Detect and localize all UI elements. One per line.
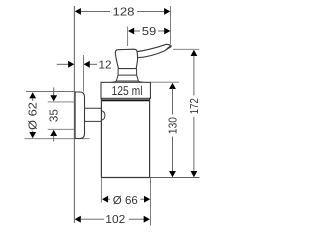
extension line below bottle left (x=101.2) bbox=[100, 178, 102, 203]
dim 59 line left bbox=[134, 30, 140, 32]
wall flange bbox=[75, 92, 84, 139]
wall line bbox=[73, 6, 75, 223]
collar lower ring bbox=[116, 75, 138, 81]
dim O62 line top bbox=[32, 98, 34, 101]
extension line 35 top (y=101.9) bbox=[48, 101, 74, 103]
dim 128 arrow left bbox=[75, 8, 81, 15]
svg-text:102: 102 bbox=[105, 214, 125, 226]
dim 59 arrow left bbox=[128, 28, 134, 35]
dim O62 arrow top bbox=[29, 92, 36, 98]
dim 172 line lower bbox=[193, 117, 195, 172]
dim 130 arrow bottom bbox=[169, 171, 176, 177]
dim O66 stub right bbox=[140, 198, 144, 200]
dim 128 line right bbox=[137, 10, 165, 12]
extension line bottom baseline right (y=177.5) bbox=[149, 177, 199, 179]
extension line 12 right (x=83.5) bbox=[83, 55, 85, 92]
extension line bottle top right (y=82.2) bbox=[151, 81, 179, 83]
svg-text:Ø 66: Ø 66 bbox=[113, 195, 138, 207]
dim 12 tail right bbox=[90, 63, 97, 65]
svg-text:130: 130 bbox=[168, 117, 180, 134]
collar upper ring bbox=[118, 69, 137, 76]
dim 102 line right bbox=[129, 218, 145, 220]
dim 130 line lower bbox=[172, 137, 174, 172]
dim 35 arrow top (pointing down) bbox=[50, 95, 57, 101]
dim O66 arrow left bbox=[102, 196, 108, 203]
dim O62 arrow bottom bbox=[29, 132, 36, 138]
svg-text:172: 172 bbox=[189, 98, 201, 114]
lever tip bevel line bbox=[165, 45, 171, 50]
dim 130 arrow top bbox=[169, 83, 176, 89]
extension line top right (x=170.5 from 128/59 dims) bbox=[170, 6, 172, 44]
dim 102 tail left bbox=[81, 218, 105, 220]
svg-text:Ø 62: Ø 62 bbox=[28, 102, 40, 130]
dim O62 line bottom bbox=[32, 131, 34, 133]
holder ring line bbox=[101, 99, 149, 101]
extension line flange bottom (y=138.7) bbox=[24, 138, 89, 140]
svg-text:12: 12 bbox=[99, 60, 112, 72]
bottle label band bbox=[101, 82, 150, 98]
svg-text:59: 59 bbox=[142, 26, 157, 38]
dim O66 arrow right bbox=[144, 196, 150, 203]
extension line 35 bottom (y=129.3) bbox=[48, 128, 74, 130]
extension line spout top (y=49.3) bbox=[173, 48, 199, 50]
dim 102 arrow right bbox=[144, 216, 150, 223]
svg-text:125 ml: 125 ml bbox=[112, 83, 143, 98]
dim O66 stub left bbox=[108, 198, 110, 200]
holder knob bbox=[102, 111, 105, 121]
bottle body bbox=[101, 99, 149, 178]
pump lever bbox=[135, 44, 171, 57]
svg-text:35: 35 bbox=[49, 109, 61, 122]
dim 172 line upper bbox=[193, 56, 195, 96]
dim 12 tail left bbox=[57, 63, 69, 65]
extension line below bottle right (x=150.5) bbox=[150, 178, 152, 226]
dim 130 line upper bbox=[172, 89, 174, 115]
dim 35 line bottom bbox=[53, 135, 55, 142]
extension line flange top (y=91.5) bbox=[26, 91, 75, 93]
dim 59 line right bbox=[158, 30, 165, 32]
dim 12 arrow right bbox=[84, 61, 90, 68]
dim 172 arrow top bbox=[191, 50, 198, 56]
dim 128 arrow right bbox=[164, 8, 170, 15]
dim 59 arrow right bbox=[164, 28, 170, 35]
extension line 59 left (x=127.6) bbox=[127, 27, 129, 47]
dim 35 arrow bottom (pointing up) bbox=[50, 130, 57, 136]
holder arm bbox=[85, 108, 102, 121]
dim 35 line top bbox=[53, 88, 55, 96]
svg-text:128: 128 bbox=[113, 6, 135, 18]
dim 12 arrow left bbox=[68, 61, 74, 68]
dim 102 arrow left bbox=[75, 216, 81, 223]
dim 172 arrow bottom bbox=[191, 171, 198, 177]
collar base fillets bbox=[112, 81, 144, 82]
pump cap bbox=[115, 49, 137, 68]
dim 128 line left bbox=[80, 10, 110, 12]
